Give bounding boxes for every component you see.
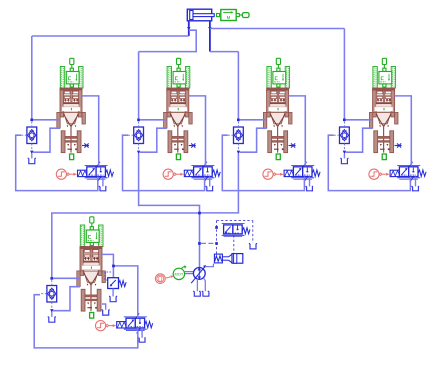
pump circle — [193, 268, 205, 280]
tank under check valve 4 — [343, 154, 345, 159]
check valve 5 — [41, 277, 57, 313]
tank under check valve 1 — [31, 154, 33, 159]
cylinder piston — [190, 11, 193, 20]
tank under check valve 5 — [51, 312, 53, 317]
node compensator pilot lower — [215, 242, 218, 245]
pump suction tank — [193, 291, 200, 296]
source link arrow — [165, 277, 171, 279]
pump swash arrow — [191, 267, 204, 283]
strut 5 (levelling unit) — [77, 247, 106, 319]
corner assembly 4 (rear right) — [328, 58, 426, 191]
return wire assembly 2 to pump node — [139, 154, 200, 214]
wire: check 5 to strut 5 lower port — [53, 287, 80, 311]
cylinder rod — [193, 14, 214, 17]
pump displacement actuator — [214, 254, 242, 264]
corner assembly 3 (rear left) — [222, 58, 320, 191]
svg-text:MOT: MOT — [174, 272, 183, 277]
signal source and valve 5 — [96, 313, 153, 342]
supply wire assembly 4 — [343, 29, 345, 119]
return wire assembly 3 to pump node — [200, 154, 239, 213]
relief valve 5 — [105, 272, 126, 289]
wire: check 5 to strut 5 upper port — [53, 277, 80, 279]
electric motor MOT (green) — [173, 266, 186, 280]
variable displacement pump — [191, 265, 206, 283]
wire: top bus left (body A-side) — [32, 35, 189, 37]
wire cylinder left port stub — [188, 21, 190, 36]
node compensator pilot upper — [215, 226, 218, 229]
pressure compensator valve (in dashed supercomponent box) — [217, 221, 253, 254]
pump case drain lines — [197, 278, 205, 292]
tank under relief valve 5 — [112, 289, 114, 297]
supply wire assembly 3 — [237, 52, 239, 119]
body mass (green, top) — [217, 10, 250, 21]
node: compensator pilot tap — [198, 242, 201, 245]
node: pump main junction — [198, 212, 201, 215]
actuator spring box — [214, 254, 222, 263]
cylinder barrel — [187, 9, 211, 21]
svg-text:M: M — [227, 15, 231, 20]
elbow tank at strut 5 lower right port — [102, 304, 106, 310]
node at cylinder left port — [187, 27, 190, 31]
source outer circle — [155, 274, 165, 284]
supply wire assembly 5 — [52, 213, 200, 277]
wire: strut 5 top port to relief and valve 5 — [102, 254, 138, 318]
zero force end — [242, 13, 249, 18]
corner assembly 1 (front left) — [16, 58, 114, 191]
motor-pump shaft — [185, 271, 194, 273]
mass body M — [221, 10, 236, 21]
supply wire assembly 1 — [31, 36, 33, 119]
pilot wire valve 5 to check 5 — [34, 295, 138, 348]
tank of compensator — [249, 244, 257, 249]
wire: branch to assembly 3 — [210, 51, 239, 53]
body cylinder (blue, top) — [187, 9, 214, 21]
pump supply column — [199, 213, 201, 268]
corner assembly 2 (front right) — [123, 58, 221, 191]
node at cylinder right port — [208, 27, 211, 31]
wire cylinder right port stub — [209, 21, 211, 52]
pilot tap wire to compensator — [201, 242, 217, 244]
supply wire assembly 2 — [138, 52, 140, 119]
mass right port — [236, 14, 239, 17]
electrical source (red) — [155, 274, 173, 284]
mass left port — [217, 14, 220, 17]
wire: branch to assembly 2 — [139, 30, 197, 51]
pump case drain tank — [202, 291, 209, 296]
actuator piston — [232, 254, 243, 264]
wire: top bus right (body B-side) — [210, 28, 345, 30]
mass 5 (levelling unit) — [80, 217, 103, 247]
compensator valve body — [222, 224, 250, 237]
wire pump swash to actuator — [205, 264, 213, 267]
node on strut 5 service line — [112, 265, 115, 268]
